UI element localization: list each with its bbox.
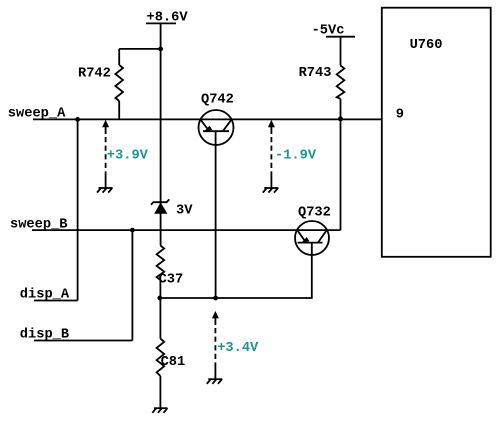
node junction C37 bottom / y298 line: [157, 296, 162, 301]
svg-text:+3.9V: +3.9V: [107, 149, 149, 164]
node junction Q742 emitter / y298 line: [213, 296, 218, 301]
wire R742 top horizontal: [119, 48, 160, 50]
svg-text:C81: C81: [161, 355, 186, 370]
resistor R742: [78, 49, 123, 120]
wire sweep_B horizontal to Q732: [32, 229, 341, 231]
ground under +3.4V arrow: [207, 366, 223, 384]
node junction R742/+8.6V: [158, 47, 163, 52]
wire disp_B horizontal: [34, 340, 132, 342]
diode zener D 3V: [151, 199, 193, 218]
node junction sweep_B/disp_B riser: [130, 228, 135, 233]
op-amp U760 box: [382, 8, 491, 257]
wire sweep_A horizontal to U760 pin 9: [33, 118, 382, 120]
ground under +3.9V arrow: [97, 174, 113, 193]
svg-text:Q742: Q742: [201, 93, 234, 108]
wire R743 to junction and down to Q732 collector: [340, 99, 342, 230]
ground under -1.9V arrow: [263, 174, 279, 193]
wire from y298 node down to C81: [159, 298, 161, 339]
svg-text:3V: 3V: [176, 203, 193, 218]
svg-text:+3.4V: +3.4V: [217, 341, 259, 356]
svg-text:R743: R743: [299, 66, 332, 81]
node junction R743/pin9/sweep_A: [338, 116, 343, 121]
resistor C81: [157, 339, 186, 409]
svg-text:C37: C37: [159, 273, 184, 288]
svg-text:R742: R742: [78, 66, 111, 81]
transistor Q742: [199, 93, 234, 145]
resistor C37: [157, 246, 184, 299]
wire main vertical from +8.6V down to C37: [160, 23, 162, 245]
power +8.6V: [146, 11, 188, 26]
wire disp_A horizontal: [34, 300, 78, 302]
resistor R743: [299, 66, 345, 99]
annotation arrow +3.9V: [102, 120, 149, 174]
wire Q742 emitter down to node line: [215, 131, 217, 298]
annotation arrow -1.9V: [268, 120, 317, 174]
svg-text:9: 9: [396, 108, 404, 123]
annotation arrow +3.4V: [212, 311, 259, 366]
svg-text:U760: U760: [410, 38, 443, 53]
node junction sweep_A/disp_A riser: [75, 117, 80, 122]
power -5Vc: [312, 23, 355, 65]
transistor Q732: [295, 206, 331, 256]
wire Q732 emitter down and left along y=298: [160, 243, 312, 298]
svg-text:Q732: Q732: [298, 206, 331, 221]
ground bottom of C81: [152, 408, 167, 413]
svg-text:-1.9V: -1.9V: [275, 149, 317, 164]
wire riser disp_B to sweep_B: [131, 230, 133, 340]
wire riser disp_A to sweep_A: [77, 119, 79, 300]
